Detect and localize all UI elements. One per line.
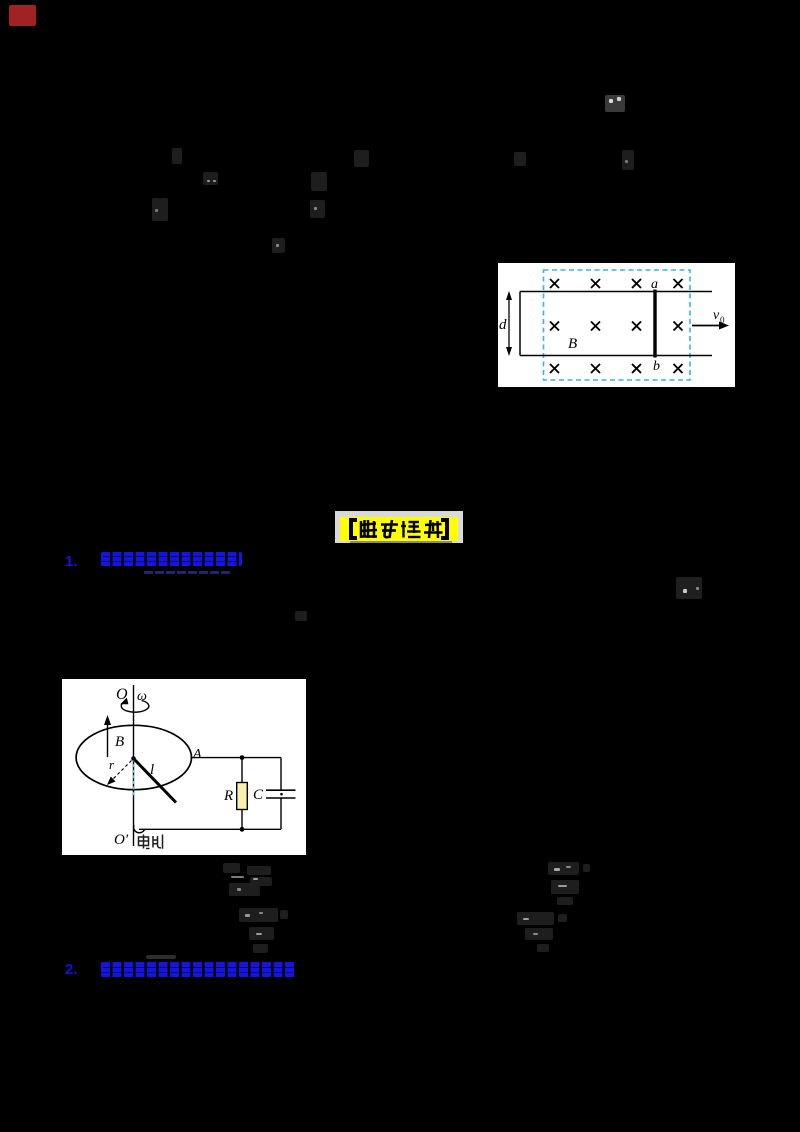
junction dot top [240, 755, 245, 760]
svg-text:d: d [499, 317, 507, 333]
right wire upper [280, 758, 282, 790]
small grey mark right of fig1 area [676, 577, 702, 599]
rotation arc arrow [121, 701, 149, 713]
rod l [134, 759, 177, 803]
bottom-right equation remnants cluster 1 [548, 862, 579, 875]
figure 1: rod ab sliding on rails in magnetic field [498, 263, 735, 387]
junction dot bottom [240, 827, 245, 832]
rod ab [653, 290, 656, 358]
char li [381, 520, 398, 538]
resistor lead bottom [241, 810, 243, 830]
faint glyph remnant blobs upper area [172, 148, 182, 164]
svg-text:C: C [253, 787, 264, 803]
question 1 blue source text (CJK simulated) [101, 552, 242, 566]
white figure background [498, 263, 735, 387]
bottom-right equation remnants cluster 2 [517, 912, 554, 925]
x field marks row 3 [550, 364, 683, 373]
svg-text:a: a [651, 277, 658, 292]
svg-text:R: R [223, 788, 233, 804]
figure 2: rotating rod disc with R and C circuit [62, 679, 306, 856]
title pseudo CJK glyphs [340, 517, 458, 541]
ability-boost section title [335, 511, 463, 543]
bottom wire [139, 828, 281, 830]
char neng [360, 520, 377, 538]
svg-text:l: l [150, 762, 154, 778]
bottom rail [520, 355, 712, 357]
top rail [520, 291, 712, 293]
bottom-left equation remnants cluster 2 [239, 908, 278, 922]
grey strip under title [350, 541, 452, 544]
x field marks row 2 [550, 322, 683, 331]
char sheng [424, 520, 443, 538]
x field marks row 1 [550, 279, 683, 288]
top wire [191, 757, 282, 759]
B field arrow [107, 721, 109, 757]
svg-text:b: b [653, 359, 660, 374]
disc ellipse [76, 725, 191, 789]
right bracket [441, 520, 447, 538]
svg-text:O′: O′ [114, 832, 129, 848]
center pivot dot [131, 756, 136, 761]
svg-text:B: B [568, 336, 577, 352]
faint dash above question 2 [146, 955, 176, 959]
dashed field boundary [544, 270, 691, 380]
r dashed radius arrow [110, 761, 132, 783]
resistor lead top [241, 758, 243, 783]
svg-text:v: v [713, 308, 720, 323]
question 2 blue source text (CJK simulated) [101, 962, 295, 977]
v0 velocity arrow [692, 325, 722, 327]
question 2 number [65, 961, 79, 976]
cyan dashed vertical [133, 759, 135, 796]
left bracket [351, 520, 357, 538]
question 1 dim underline [144, 571, 230, 574]
brush contact curl [134, 825, 145, 833]
svg-text:B: B [115, 734, 124, 750]
d dimension arrow [508, 294, 510, 353]
question 1 number [65, 553, 79, 568]
white figure background [62, 679, 306, 855]
brush CJK label dianshua (drawn) [139, 835, 163, 849]
red stamp block top-left [9, 5, 36, 26]
svg-text:0: 0 [720, 315, 725, 325]
resistor body R [237, 783, 248, 810]
left end wire [519, 292, 521, 356]
rotation axis line [133, 685, 135, 846]
capacitor plates [266, 789, 296, 791]
char ti [401, 521, 421, 538]
svg-text:A: A [192, 747, 202, 762]
bottom-left equation remnants cluster 1 [223, 863, 240, 873]
right wire lower [280, 798, 282, 829]
